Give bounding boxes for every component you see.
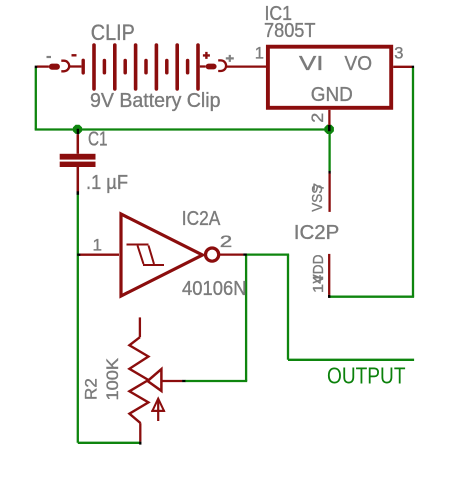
pin 2 IC1	[328, 110, 330, 125]
battery CLIP	[37, 45, 267, 89]
pin 2 inverter	[219, 253, 243, 255]
battery tall bar 3	[134, 45, 138, 89]
plate C1 bottom	[60, 162, 96, 167]
battery tall bar 6	[196, 45, 200, 89]
svg-text:GND: GND	[311, 84, 353, 106]
battery short bar 3	[144, 61, 148, 73]
battery plus sign red	[203, 52, 210, 59]
pin R2 bottom	[139, 423, 141, 441]
svg-text:14: 14	[310, 275, 327, 293]
connection tick VDD pin	[328, 295, 330, 298]
svg-text:1: 1	[255, 44, 264, 62]
svg-text:OUTPUT: OUTPUT	[327, 363, 406, 389]
svg-text:IC2A: IC2A	[182, 208, 221, 230]
battery short bar 4	[165, 61, 169, 73]
battery tall bar 1	[92, 45, 96, 89]
battery socket left	[61, 61, 69, 72]
svg-text:3: 3	[394, 44, 403, 62]
svg-text:2: 2	[220, 232, 232, 251]
pin 1 inverter	[79, 254, 119, 256]
battery lead left	[37, 65, 49, 67]
capacitor C1	[60, 134, 96, 191]
label plus gray	[226, 55, 234, 62]
hysteresis symbol	[127, 245, 165, 266]
battery short bar 1	[103, 61, 107, 73]
svg-text:VI: VI	[299, 53, 324, 75]
pin VSS IC2P	[328, 173, 330, 212]
voltage regulator IC1	[268, 47, 391, 108]
connection tick R2 bottom	[139, 442, 141, 445]
wire VSS to ground	[328, 130, 330, 172]
wire OUTPUT horizontal	[288, 359, 414, 361]
battery minus sign red	[72, 54, 77, 56]
wire bottom rail	[78, 442, 141, 444]
svg-text:.1 µF: .1 µF	[86, 172, 128, 194]
connection tick IC1 pin3	[412, 66, 414, 68]
battery tall bar 4	[155, 45, 159, 89]
battery tall bar 2	[113, 45, 117, 89]
wire ground rail	[35, 128, 330, 130]
wire VDD horizontal	[329, 296, 414, 298]
output bubble	[206, 248, 219, 261]
battery short bar 2	[123, 61, 127, 73]
wire output to wiper vertical	[245, 255, 247, 381]
svg-text:IC2P: IC2P	[294, 222, 340, 244]
wiper arrow R2	[148, 369, 162, 391]
svg-text:VO: VO	[345, 53, 373, 75]
battery stud left	[49, 64, 60, 70]
pin wiper R2	[161, 380, 182, 382]
connection tick battery minus	[35, 66, 38, 69]
svg-text:CLIP: CLIP	[91, 20, 135, 45]
connection tick inverter output	[243, 253, 247, 255]
svg-text:100K: 100K	[103, 357, 122, 400]
svg-text:R2: R2	[82, 378, 101, 400]
connection tick C1 top	[77, 129, 79, 135]
wire inverter output horizontal	[247, 253, 290, 255]
pin 3 IC1	[393, 66, 412, 68]
connection tick wiper	[182, 380, 185, 382]
svg-text:7805T: 7805T	[264, 20, 316, 42]
wire input net vertical	[77, 195, 79, 443]
battery stud right	[206, 64, 217, 70]
svg-text:40106N: 40106N	[182, 278, 247, 300]
node junction IC1 GND	[324, 125, 333, 134]
connection tick inverter input	[77, 254, 80, 256]
connection tick IC1 pin2	[328, 125, 331, 131]
svg-text:C1: C1	[88, 129, 108, 151]
svg-text:9V Battery Clip: 9V Battery Clip	[90, 90, 221, 112]
connection tick VSS pin	[328, 171, 330, 174]
battery pin to IC1	[226, 65, 266, 67]
resistor zigzag R2	[129, 337, 148, 423]
battery tick to stud right	[200, 65, 206, 67]
battery tall bar 5	[175, 45, 179, 89]
plate C1 top	[60, 154, 96, 160]
pin VDD IC2P	[328, 254, 330, 295]
pin C1 top	[77, 134, 80, 154]
svg-text:2: 2	[309, 113, 327, 123]
battery lead inner left	[69, 65, 81, 67]
wire wiper horizontal	[185, 380, 247, 382]
svg-text:1: 1	[93, 235, 102, 254]
label minus gray	[47, 56, 52, 58]
potentiometer R2	[129, 317, 182, 441]
battery short bar 5	[186, 61, 190, 73]
wire battery minus vertical	[35, 68, 37, 130]
trimmer arrow R2	[157, 399, 159, 421]
pin R2 top	[139, 317, 141, 337]
battery endcap bar left	[81, 60, 84, 73]
wire 5V right vertical	[412, 68, 414, 297]
svg-text:7: 7	[310, 183, 327, 191]
inverter IC2A	[121, 214, 203, 296]
wire OUTPUT vertical	[287, 255, 289, 360]
battery socket right	[218, 60, 226, 71]
connection tick C1 bottom	[77, 191, 80, 195]
pin C1 bottom	[77, 167, 80, 192]
node junction C1 top	[73, 125, 82, 134]
